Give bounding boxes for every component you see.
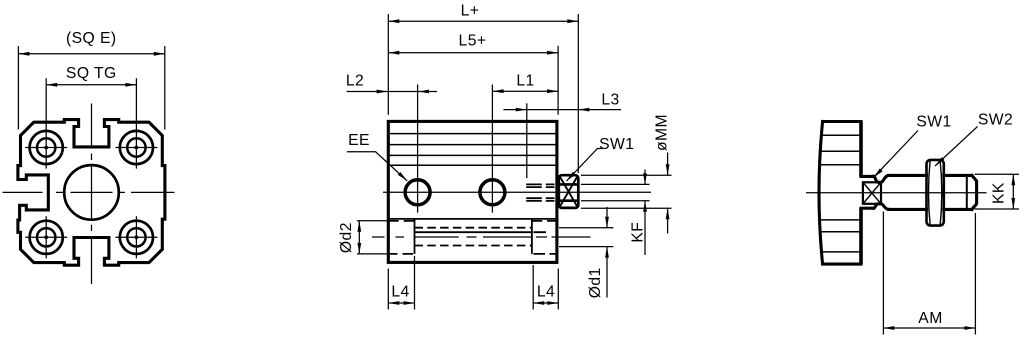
svg-text:SW1: SW1 xyxy=(916,114,951,131)
body outline with T-slots and chamfered corners xyxy=(18,120,165,266)
profile edge lines xyxy=(390,134,556,166)
KK dimension xyxy=(1012,174,1014,209)
hidden hole Od1 dashes xyxy=(415,227,533,229)
hidden counterbore Od2 dashes xyxy=(390,253,557,255)
dimension L4 left xyxy=(388,256,414,310)
bolt hole axis centerline xyxy=(372,236,591,238)
counterbore bottom verticals xyxy=(415,219,532,254)
svg-text:KF: KF xyxy=(630,222,647,243)
dimension L5+ xyxy=(388,46,558,115)
dimension L4 right xyxy=(533,265,558,310)
svg-text:EE: EE xyxy=(348,132,370,149)
svg-text:L4: L4 xyxy=(537,284,555,301)
body rectangle xyxy=(388,121,557,262)
Od1 dimension xyxy=(606,207,608,298)
svg-text:L1: L1 xyxy=(516,73,534,90)
svg-text:Ød2: Ød2 xyxy=(338,222,355,253)
oMM extension lines xyxy=(581,175,672,208)
body horizontal centerline xyxy=(383,191,651,193)
bolt hole top-left counterbore xyxy=(30,131,63,164)
dimension L3 (arrows outside) xyxy=(504,103,622,178)
svg-text:SW1: SW1 xyxy=(599,136,634,153)
svg-text:L+: L+ xyxy=(461,3,480,20)
vertical centerline of body xyxy=(91,104,93,285)
svg-text:AM: AM xyxy=(918,310,942,327)
neck transition to rod xyxy=(874,175,889,209)
KF extension lines xyxy=(581,184,650,200)
bolt hole bottom-right counterbore xyxy=(120,221,153,254)
bolt hole crosshair horizontals xyxy=(25,148,157,238)
dimension L+ xyxy=(388,14,578,173)
rod end block with wrench flats (hatched) xyxy=(559,175,579,208)
upper edge of lower section / Od2 line xyxy=(390,218,556,220)
dimension L1 xyxy=(493,90,558,92)
body slab outline xyxy=(819,122,861,265)
svg-text:SQ TG: SQ TG xyxy=(66,65,117,82)
body slab profile lines xyxy=(820,135,862,252)
svg-text:(SQ E): (SQ E) xyxy=(66,30,117,47)
KF dimension xyxy=(644,170,646,256)
port EE circle left xyxy=(405,180,430,205)
svg-text:L2: L2 xyxy=(346,73,364,90)
svg-text:L4: L4 xyxy=(391,284,409,301)
oMM dimension xyxy=(667,153,669,234)
dimension L2 (arrows outside) xyxy=(347,91,438,93)
bolt hole crosshair verticals (top holes extended up as SQ TG extension lines) xyxy=(46,78,136,258)
Od2 extension line bottom xyxy=(357,253,393,255)
port circle right xyxy=(480,180,505,205)
port circle verticals / L2 L1 extension lines xyxy=(418,85,493,213)
dimension SQ E xyxy=(18,46,164,130)
dimension AM xyxy=(883,212,975,335)
Od2 dimension xyxy=(358,221,360,254)
bolt hole bottom-left counterbore xyxy=(30,221,63,254)
svg-text:KK: KK xyxy=(991,182,1008,204)
svg-text:L3: L3 xyxy=(601,92,619,109)
Od1 extension lines xyxy=(559,228,614,247)
svg-text:Ød1: Ød1 xyxy=(587,267,604,298)
wrench flats square SW1 xyxy=(863,182,881,204)
rod boss at body exit xyxy=(861,176,874,208)
dimension SQ TG xyxy=(46,84,136,86)
inner solid line right of counterbore xyxy=(415,231,547,233)
hidden thread double dashes xyxy=(526,184,554,200)
rod centerline xyxy=(806,192,987,194)
horizontal centerline of body xyxy=(3,191,175,193)
center bore circle xyxy=(64,165,119,220)
svg-text:SW2: SW2 xyxy=(978,111,1013,128)
KK extension lines xyxy=(975,174,1020,209)
svg-text:øMM: øMM xyxy=(654,114,671,151)
svg-text:L5+: L5+ xyxy=(459,33,487,50)
bolt hole top-right counterbore xyxy=(120,131,153,164)
piston rod outline xyxy=(889,175,977,209)
hex nut SW2 xyxy=(927,160,944,226)
